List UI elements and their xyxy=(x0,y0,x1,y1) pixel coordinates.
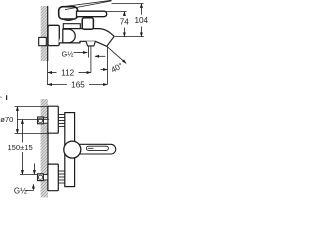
svg-text:150±15: 150±15 xyxy=(7,143,32,152)
svg-text:G½: G½ xyxy=(14,187,27,196)
svg-text:165: 165 xyxy=(71,80,85,89)
svg-text:112: 112 xyxy=(61,68,74,77)
svg-text:104: 104 xyxy=(134,16,148,25)
svg-text:40°: 40° xyxy=(110,61,125,75)
svg-text:ø70: ø70 xyxy=(0,115,13,124)
svg-text:G½: G½ xyxy=(62,49,74,58)
svg-text:74: 74 xyxy=(120,18,130,27)
